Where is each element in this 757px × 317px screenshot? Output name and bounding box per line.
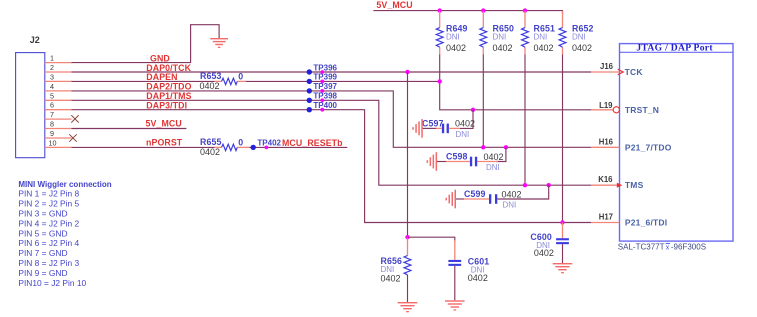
svg-text:0402: 0402 xyxy=(381,273,401,283)
svg-text:SAL-TC377T: SAL-TC377T xyxy=(618,243,665,252)
svg-text:0402: 0402 xyxy=(455,119,475,129)
wire 5V_MCU rail xyxy=(373,11,562,14)
svg-text:3: 3 xyxy=(50,72,54,81)
pin L19 TRST_N xyxy=(591,101,659,115)
wire C598 drop from TDO junction xyxy=(496,147,506,161)
junction R649/DAPEN row xyxy=(438,79,442,83)
svg-text:TMS: TMS xyxy=(625,180,644,190)
pin K16 TMS xyxy=(591,175,644,190)
svg-text:TP397: TP397 xyxy=(313,82,337,91)
wire DAP2/TDO row (pin4, down at x=393.3, to JTAG H16) xyxy=(72,91,592,147)
ground (left, C597) xyxy=(412,119,423,138)
pin 6 (J2) xyxy=(45,101,72,110)
svg-text:PIN 9 = GND: PIN 9 = GND xyxy=(18,268,67,278)
wire DAP0/TCK row (pin2 to JTAG TCK) xyxy=(72,71,592,73)
svg-text:0: 0 xyxy=(238,138,243,148)
testpoint TP398 xyxy=(307,92,338,103)
junction TCK branch xyxy=(405,70,409,74)
svg-text:0402: 0402 xyxy=(534,43,554,53)
svg-text:PIN 8 = J2 Pin 3: PIN 8 = J2 Pin 3 xyxy=(18,258,79,268)
wire C597 drop from TRST_N junction xyxy=(460,110,473,129)
wire R649 to DAPEN row and TRST_N row xyxy=(440,55,473,110)
svg-text:0402: 0402 xyxy=(200,147,220,157)
wire DAPEN row (R653 to R649 junction) xyxy=(245,80,440,82)
ground (top, GND net) xyxy=(210,38,228,48)
svg-text:0: 0 xyxy=(238,72,243,82)
pin H16 P21_7/TDO xyxy=(591,137,672,152)
svg-text:TCK: TCK xyxy=(625,67,644,77)
svg-text:PIN 3 = GND: PIN 3 = GND xyxy=(18,209,67,219)
svg-text:R655: R655 xyxy=(200,137,221,147)
svg-text:DNI: DNI xyxy=(534,32,548,41)
junction rail/R651 xyxy=(523,8,527,12)
svg-text:PIN10 = J2 Pin 10: PIN10 = J2 Pin 10 xyxy=(18,278,86,288)
svg-text:0402: 0402 xyxy=(534,248,554,258)
svg-text:0402: 0402 xyxy=(502,189,522,199)
svg-text:R653: R653 xyxy=(200,71,221,81)
connector J2 xyxy=(16,35,45,158)
wire R651 to TMS row xyxy=(524,55,526,186)
svg-text:10: 10 xyxy=(49,138,57,147)
svg-text:PIN 2 = J2 Pin 5: PIN 2 = J2 Pin 5 xyxy=(18,199,79,209)
svg-text:x: x xyxy=(666,245,670,252)
no-connect X pin 9 xyxy=(69,134,76,141)
svg-text:0402: 0402 xyxy=(484,152,504,162)
svg-text:TRST_N: TRST_N xyxy=(625,105,659,115)
wire R650 to TDO row xyxy=(482,55,484,148)
testpoint TP396 xyxy=(307,63,338,74)
resistor R653 xyxy=(200,71,247,91)
wire nPORST row (pin10 to R655) xyxy=(72,146,215,148)
capacitor C597 xyxy=(422,118,475,139)
junction rail/R649 xyxy=(438,8,442,12)
svg-text:5V_MCU: 5V_MCU xyxy=(376,0,412,10)
ground (bottom, R656) xyxy=(398,302,418,312)
svg-text:JTAG / DAP Port: JTAG / DAP Port xyxy=(636,43,713,54)
pin 5 (J2) xyxy=(45,91,72,100)
svg-text:J16: J16 xyxy=(600,62,614,71)
capacitor C599 xyxy=(456,189,522,209)
svg-text:DNI: DNI xyxy=(486,163,500,172)
svg-text:PIN 5 = GND: PIN 5 = GND xyxy=(18,228,67,238)
pin 7 (J2) xyxy=(45,110,72,119)
wire R652 to TDI row xyxy=(562,55,564,223)
svg-text:9: 9 xyxy=(50,129,54,138)
svg-text:2: 2 xyxy=(50,63,54,72)
svg-text:C598: C598 xyxy=(446,152,467,162)
resistor R656 xyxy=(381,237,411,302)
wire GND net (pin1 to ground) xyxy=(72,25,220,63)
pin J16 TCK xyxy=(591,62,643,77)
ground (bottom, C600) xyxy=(553,263,573,273)
ground (left, C599) xyxy=(446,190,457,209)
pin 2 (J2) xyxy=(45,63,72,72)
svg-text:-96F300S: -96F300S xyxy=(671,243,706,252)
svg-text:0402: 0402 xyxy=(572,43,592,53)
svg-text:DAPEN: DAPEN xyxy=(146,72,177,82)
junction R651/TMS row xyxy=(523,183,527,187)
resistor R649 xyxy=(436,11,467,55)
capacitor C600 xyxy=(530,223,568,264)
junction rail/R650 xyxy=(481,8,485,12)
wire TCK branch to C601 xyxy=(408,237,455,242)
svg-text:5: 5 xyxy=(50,91,54,100)
junction TDO/C598 xyxy=(504,145,508,149)
svg-text:TP400: TP400 xyxy=(313,101,337,110)
pin 9 (J2) xyxy=(45,129,72,138)
wire DAPEN row (pin3 to R653) xyxy=(72,80,215,82)
testpoint TP402 xyxy=(251,139,282,150)
resistor R652 xyxy=(559,11,593,55)
svg-text:H17: H17 xyxy=(599,213,613,222)
part number SAL-TC377TX-96F300S xyxy=(618,243,706,252)
pin 3 (J2) xyxy=(45,72,72,81)
wire DAP3/TDI row (pin6, down at x=364.6, to JTAG H17) xyxy=(72,110,592,223)
pin 4 (J2) xyxy=(45,82,72,91)
svg-text:PIN 1 = J2 Pin 8: PIN 1 = J2 Pin 8 xyxy=(18,189,79,199)
ground (bottom, C601) xyxy=(445,300,465,310)
pin 10 (J2) xyxy=(45,138,72,147)
svg-text:DNI: DNI xyxy=(572,32,586,41)
svg-text:1: 1 xyxy=(50,54,54,63)
testpoint TP397 xyxy=(307,82,338,93)
svg-text:DNI: DNI xyxy=(456,130,470,139)
svg-text:TP396: TP396 xyxy=(313,63,337,72)
junction TMS/C599 xyxy=(547,183,551,187)
junction R652/TDI/C600 xyxy=(560,220,564,224)
testpoint TP399 xyxy=(307,73,338,84)
junction TRST_N/C597 xyxy=(471,108,475,112)
note MINI Wiggler connection xyxy=(18,180,111,288)
svg-text:P21_6/TDI: P21_6/TDI xyxy=(625,218,667,228)
pin H17 P21_6/TDI xyxy=(591,213,667,228)
svg-text:DAP3/TDI: DAP3/TDI xyxy=(146,101,187,111)
pin 1 (J2) xyxy=(45,54,72,63)
wire C599 drop from TMS junction xyxy=(497,185,548,199)
svg-text:7: 7 xyxy=(50,110,54,119)
testpoint TP400 xyxy=(307,101,338,112)
svg-text:5V_MCU: 5V_MCU xyxy=(146,119,182,129)
wire MCU_RESETb row (R655/TP402 to open end) xyxy=(245,146,348,148)
resistor R651 xyxy=(522,11,555,55)
wire TCK branch down to R656/C601 xyxy=(407,72,409,237)
capacitor C601 xyxy=(448,240,489,300)
svg-text:6: 6 xyxy=(50,101,54,110)
svg-text:DNI: DNI xyxy=(446,32,460,41)
svg-text:nPORST: nPORST xyxy=(146,138,183,148)
capacitor C598 xyxy=(437,152,504,172)
junction R656/C601 xyxy=(405,235,409,239)
svg-text:K16: K16 xyxy=(598,175,613,184)
ground (left, C598) xyxy=(427,152,438,171)
svg-text:P21_7/TDO: P21_7/TDO xyxy=(625,142,672,152)
svg-text:H16: H16 xyxy=(599,137,614,146)
pin 8 (J2) xyxy=(45,120,72,129)
svg-text:C599: C599 xyxy=(464,189,485,199)
svg-text:8: 8 xyxy=(50,120,54,129)
svg-text:0402: 0402 xyxy=(446,43,466,53)
svg-text:C597: C597 xyxy=(422,118,443,128)
svg-text:TP402: TP402 xyxy=(257,139,281,148)
svg-text:DNI: DNI xyxy=(503,201,517,210)
resistor R655 xyxy=(200,137,250,157)
svg-text:MCU_RESETb: MCU_RESETb xyxy=(282,138,343,148)
svg-text:PIN 4 = J2 Pin 2: PIN 4 = J2 Pin 2 xyxy=(18,218,79,228)
svg-text:0402: 0402 xyxy=(493,43,513,53)
connector JTAG/DAP Port (SAL-TC377TX-96F300S) xyxy=(620,43,734,242)
svg-text:0402: 0402 xyxy=(468,273,488,283)
svg-text:0402: 0402 xyxy=(200,81,220,91)
wire TRST_N row (to JTAG L19) xyxy=(473,109,591,111)
svg-text:MINI Wiggler connection: MINI Wiggler connection xyxy=(18,180,111,189)
svg-text:L19: L19 xyxy=(599,101,613,110)
svg-text:PIN 6 = J2 Pin 4: PIN 6 = J2 Pin 4 xyxy=(18,238,79,248)
svg-text:PIN 7 = GND: PIN 7 = GND xyxy=(18,248,67,258)
no-connect X pin 7 xyxy=(71,115,78,122)
svg-text:DNI: DNI xyxy=(493,32,507,41)
wire DAP1/TMS row (pin5, down at x=378.8, to JTAG K16) xyxy=(72,100,592,185)
svg-text:4: 4 xyxy=(50,82,54,91)
wire 5V_MCU stub (pin8) xyxy=(72,128,187,130)
resistor R650 xyxy=(480,11,514,55)
svg-text:J2: J2 xyxy=(30,35,40,45)
junction R650/TDO row xyxy=(481,145,485,149)
svg-text:TP399: TP399 xyxy=(313,73,337,82)
svg-text:TP398: TP398 xyxy=(313,92,337,101)
